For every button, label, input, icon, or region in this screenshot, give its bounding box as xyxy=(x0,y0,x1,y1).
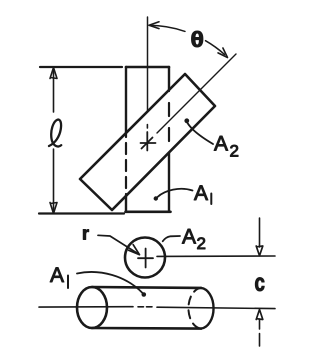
angle arc arrowhead at vertical line xyxy=(149,22,159,29)
leader for A1 top xyxy=(158,189,193,197)
cylinder centerline long right xyxy=(157,307,275,308)
dimension c bottom arrowhead xyxy=(256,310,263,320)
svg-text:A: A xyxy=(194,182,208,205)
bar A1 vertical centerline xyxy=(147,17,149,111)
bar A1 left edge solid lower xyxy=(125,196,127,212)
svg-text:c: c xyxy=(254,268,264,296)
svg-text:A: A xyxy=(182,226,196,249)
angle dimension arc right piece xyxy=(206,41,225,55)
dimension c bottom arrow tail xyxy=(259,319,261,346)
cylinder centerline long left xyxy=(39,306,133,308)
leader dot A1 bottom xyxy=(142,292,147,297)
subscript 1 of A1 bottom xyxy=(67,276,69,289)
dimension c top arrow tail xyxy=(259,218,261,247)
leader dot A2 top xyxy=(184,118,189,123)
bar A1 right edge hidden dashed xyxy=(168,90,170,153)
end-view circle of bar A2 xyxy=(125,238,165,278)
bar A1 right edge solid upper xyxy=(168,67,170,90)
centerline short dash above center mark xyxy=(146,125,148,129)
dimension c top arrowhead xyxy=(256,246,263,256)
script ell label xyxy=(49,120,61,147)
centerline through circle to right xyxy=(157,255,275,257)
angle arc arrowhead at diagonal line xyxy=(218,48,228,58)
leader dot A1 top xyxy=(154,196,158,200)
bar A1 left edge hidden dashed xyxy=(125,132,127,196)
bar A1 bottom edge xyxy=(126,211,171,214)
bar A2 centerline extension xyxy=(157,54,236,133)
svg-text:2: 2 xyxy=(197,234,206,253)
dimension l line upper segment xyxy=(53,70,55,112)
dimension l bottom arrowhead xyxy=(50,203,57,214)
leader for r xyxy=(98,235,139,254)
svg-text:θ: θ xyxy=(191,27,204,51)
cylinder A1 right cap visible arc xyxy=(201,288,214,329)
subscript 1 of A1 top xyxy=(210,194,212,205)
angle dimension arc left piece xyxy=(149,25,185,31)
dimension l bottom extension line xyxy=(39,212,124,214)
svg-text:2: 2 xyxy=(230,142,239,161)
cylinder centerline short dashes xyxy=(138,306,152,308)
circle center mark xyxy=(138,249,153,268)
svg-text:A: A xyxy=(214,133,228,156)
leader for A2 bottom xyxy=(163,236,180,241)
center mark diagonal dash xyxy=(142,138,153,149)
dimension l top extension line xyxy=(40,66,122,68)
bar A1 right edge solid lower xyxy=(168,153,170,212)
cylinder A1 left end ellipse xyxy=(77,287,107,328)
cylinder A1 top edge xyxy=(92,286,201,289)
leader for A2 top xyxy=(188,123,214,144)
cylinder A1 right cap hidden dashed arc xyxy=(188,288,201,329)
bar A2 rotated outline xyxy=(80,74,215,210)
svg-text:r: r xyxy=(82,224,89,244)
dimension l line lower segment xyxy=(53,149,55,211)
bar A1 top edge xyxy=(126,66,169,69)
center mark cross xyxy=(141,132,156,151)
svg-text:A: A xyxy=(50,264,64,287)
leader for A1 bottom xyxy=(77,272,143,293)
bar A1 left edge solid upper xyxy=(125,67,127,132)
dimension l top arrowhead xyxy=(50,68,57,79)
r leader arrowhead xyxy=(129,245,140,255)
cylinder A1 bottom edge xyxy=(92,327,201,330)
